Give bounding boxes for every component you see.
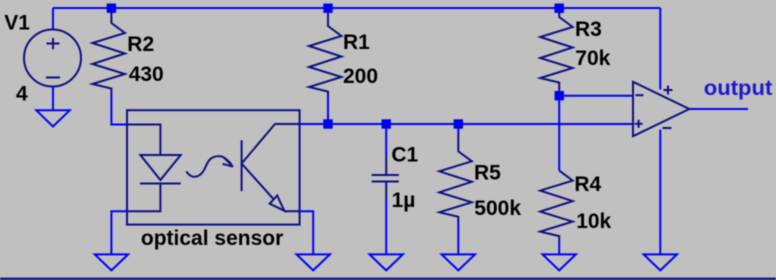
svg-text:V1: V1	[4, 12, 30, 35]
svg-text:R1: R1	[343, 31, 370, 54]
emitter arrowhead	[270, 196, 285, 211]
svg-text:200: 200	[343, 65, 378, 88]
svg-text:R3: R3	[575, 18, 602, 41]
window bottom border	[0, 278, 776, 280]
resistor R1	[309, 8, 342, 96]
junction C1 top	[382, 119, 391, 128]
svg-text:C1: C1	[391, 144, 418, 167]
junction R3 bottom	[555, 91, 564, 100]
wire R2 to optocoupler anode	[111, 93, 127, 125]
LED cathode lead	[127, 184, 160, 212]
opamp plus input mark	[635, 120, 643, 128]
wire R4 top lead	[558, 96, 560, 171]
opamp minus input mark	[636, 94, 644, 96]
opamp V+ mark	[664, 86, 673, 95]
svg-text:4: 4	[16, 83, 28, 106]
svg-text:10k: 10k	[576, 210, 611, 233]
capacitor C1	[372, 158, 399, 200]
junction R1 bottom	[323, 119, 332, 128]
wire emitter to ground	[300, 211, 314, 254]
wire output	[689, 108, 748, 110]
junction R2 top	[107, 4, 116, 13]
phototransistor base bar	[241, 140, 243, 191]
ground under R5	[442, 254, 475, 270]
wire R5 top	[457, 124, 459, 134]
wire R1 bottom	[327, 96, 329, 124]
ground under C1	[370, 254, 403, 270]
phototransistor collector	[242, 124, 300, 164]
svg-text:70k: 70k	[575, 47, 610, 70]
junction R1 top	[323, 4, 332, 13]
LED triangle	[140, 155, 180, 180]
svg-text:1µ: 1µ	[392, 189, 416, 212]
opamp V- mark	[663, 127, 672, 129]
LED anode lead	[127, 125, 160, 156]
svg-text:500k: 500k	[474, 197, 521, 220]
wire opamp V- supply to ground	[659, 130, 661, 255]
wire mid rail	[300, 123, 633, 125]
voltage source V1	[24, 30, 81, 87]
svg-text:R5: R5	[474, 161, 501, 184]
junction R5 top	[454, 119, 463, 128]
emitter lead to box edge	[284, 210, 299, 212]
resistor R5	[439, 134, 472, 222]
svg-text:output: output	[704, 76, 773, 100]
optocoupler box U1	[127, 110, 300, 224]
light squiggle arrow	[186, 156, 233, 177]
svg-text:R2: R2	[127, 33, 154, 56]
svg-text:430: 430	[129, 63, 164, 86]
ground under V1	[36, 110, 69, 126]
ground under optocoupler right	[297, 254, 330, 270]
op-amp U2	[633, 82, 689, 136]
svg-text:R4: R4	[574, 173, 601, 196]
wire R5 bottom to ground	[457, 222, 459, 254]
junction R3 top	[555, 4, 564, 13]
phototransistor emitter	[242, 164, 274, 200]
resistor R2	[92, 8, 125, 93]
LED cathode bar	[140, 183, 181, 185]
wire C1 top	[385, 124, 387, 158]
resistor R4	[540, 171, 573, 242]
wire V1 bottom lead	[52, 87, 54, 111]
wire opamp V+ supply	[659, 8, 661, 90]
wire R3 junction to opamp minus input	[559, 95, 633, 97]
ground under opamp	[644, 254, 677, 270]
wire cathode to ground	[111, 211, 127, 254]
wire V1 top lead	[52, 8, 54, 30]
wire top rail	[53, 7, 660, 9]
svg-text:optical sensor: optical sensor	[141, 227, 283, 250]
ground under R4	[543, 254, 576, 270]
wire R4 bottom to ground	[558, 242, 560, 255]
resistor R3	[540, 8, 573, 96]
ground under optocoupler left	[95, 254, 128, 270]
wire C1 bottom to ground	[385, 200, 387, 254]
